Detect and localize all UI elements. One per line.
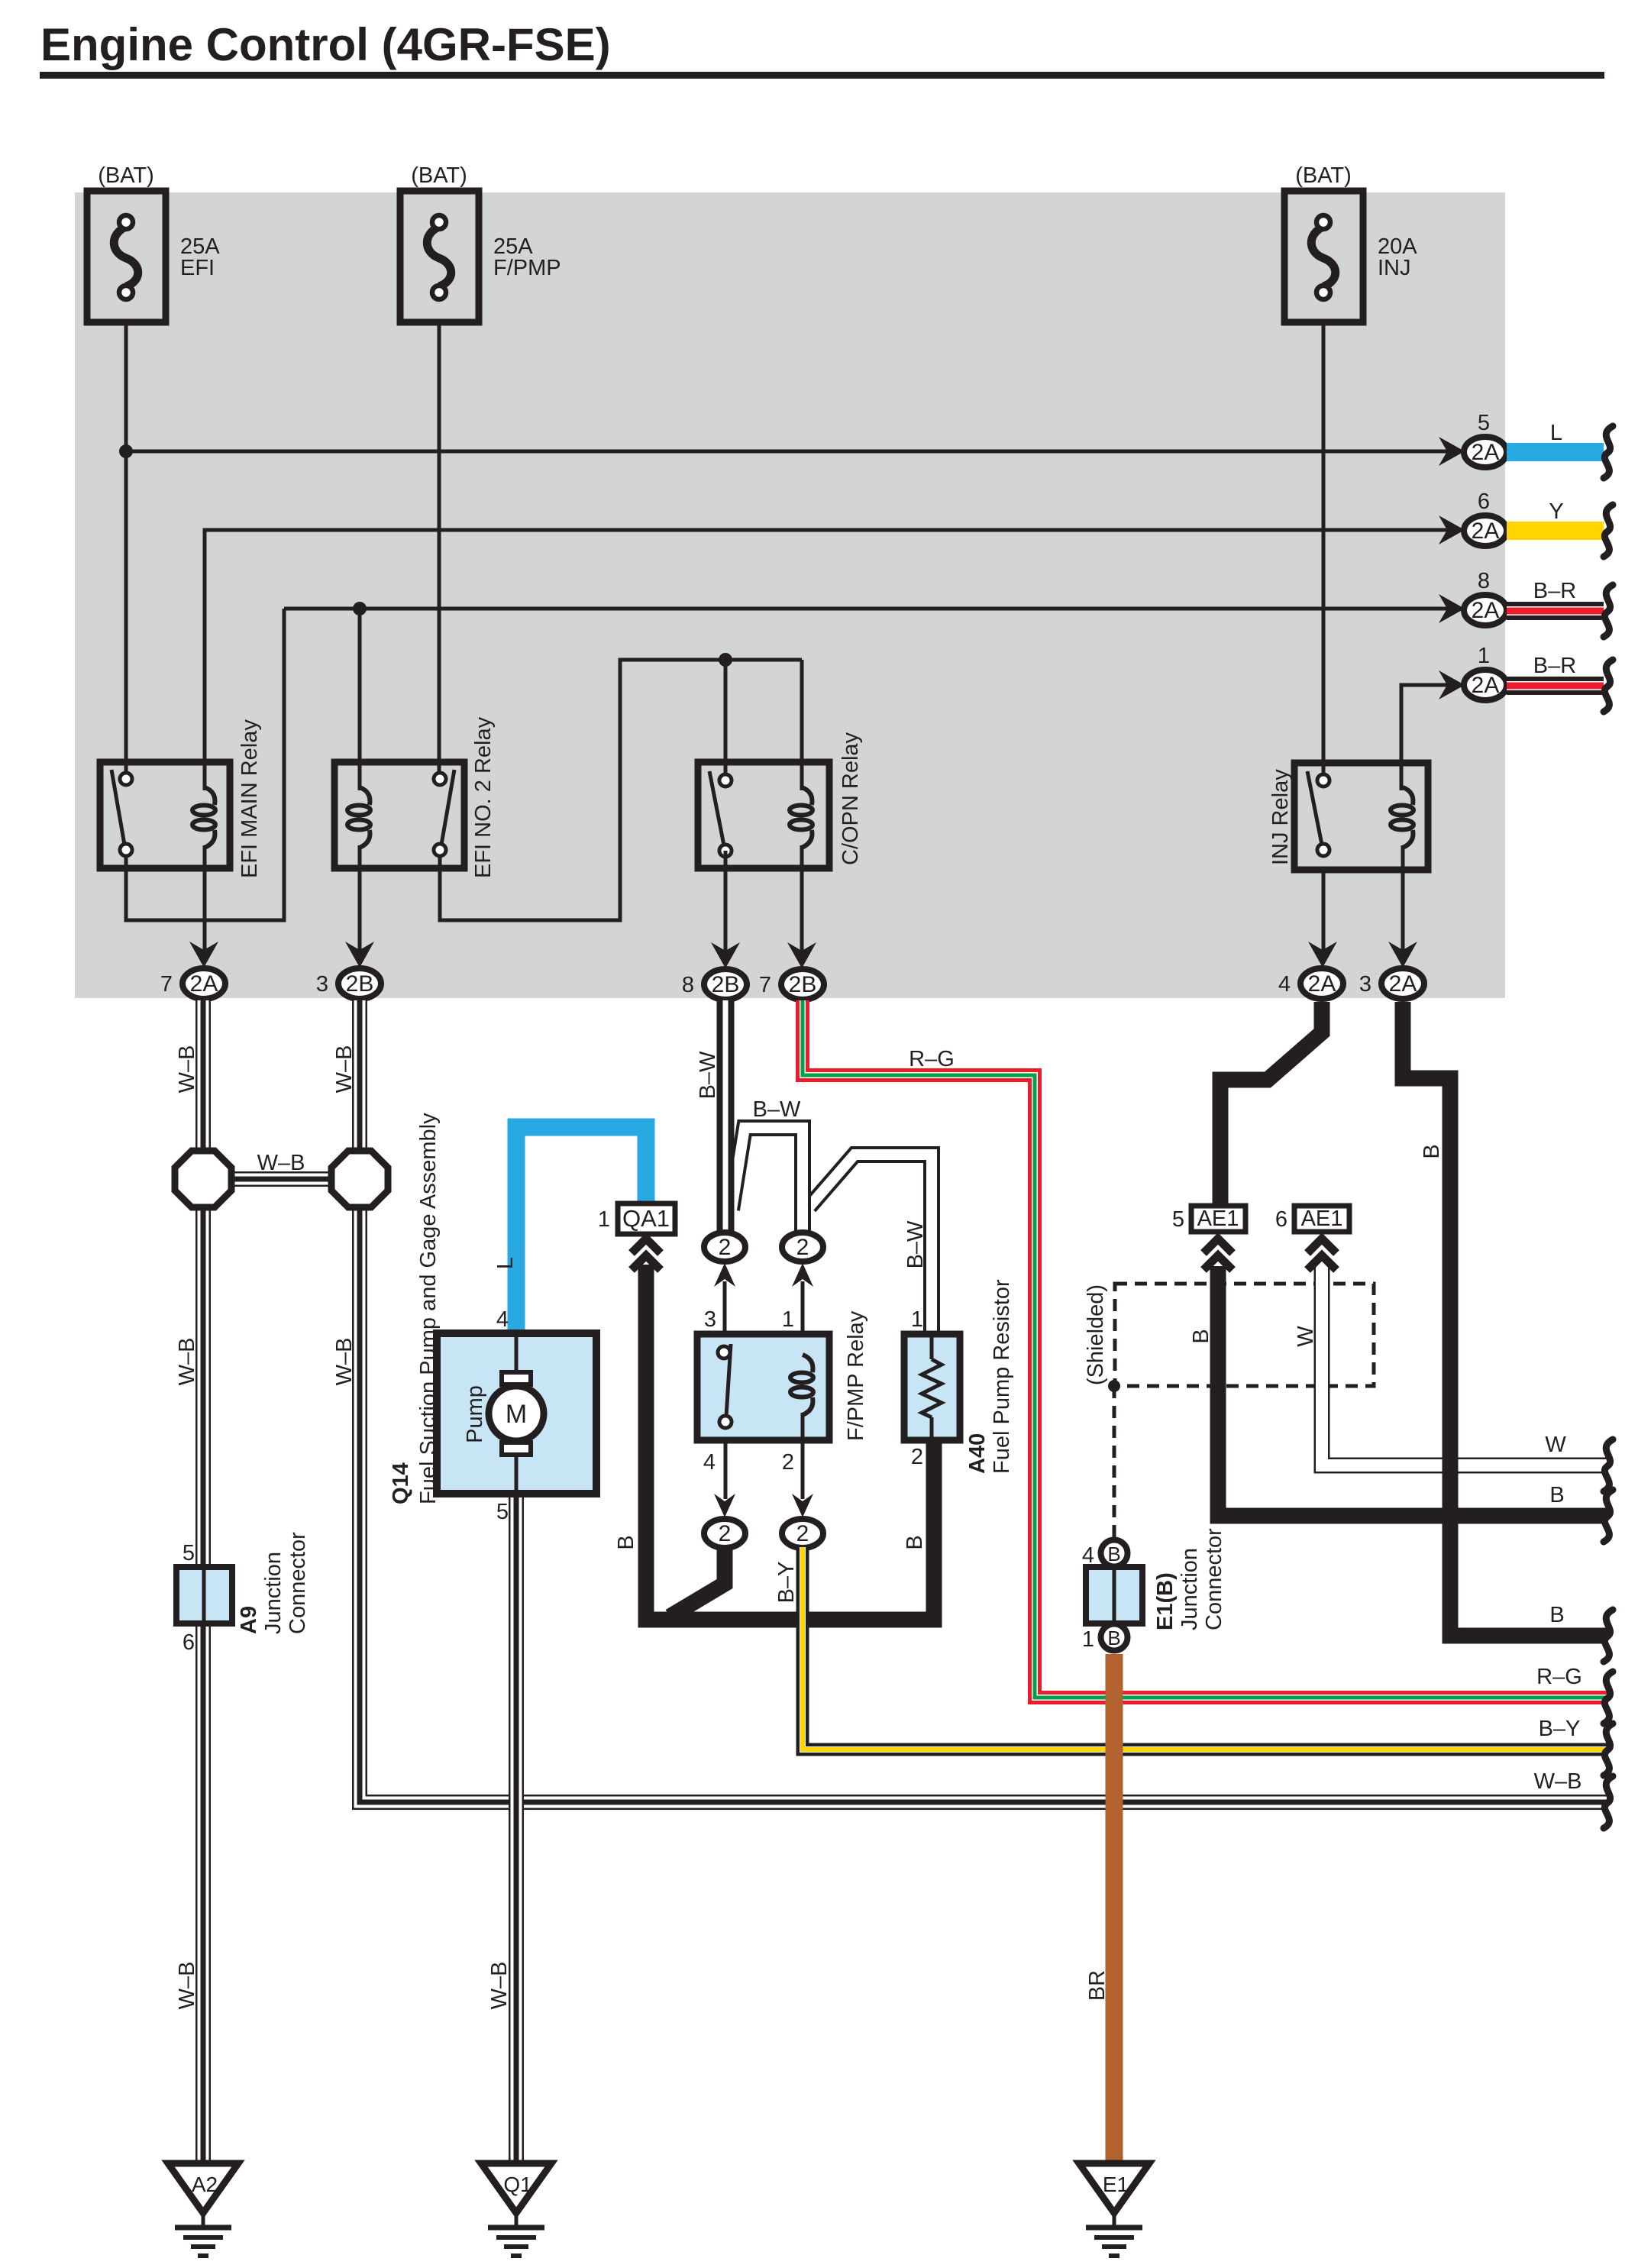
svg-text:2B: 2B: [346, 971, 374, 997]
EFI NO.2 relay switch: [441, 770, 454, 845]
fuse 25A EFI: [87, 191, 166, 322]
relay box: EFI NO. 2 Relay: [334, 762, 464, 868]
relay box: EFI MAIN Relay: [100, 762, 230, 868]
double chevron arrow into AE1 pin5: [1203, 1239, 1233, 1253]
ring terminal B pin 4: [1101, 1540, 1128, 1567]
svg-text:EFI MAIN Relay: EFI MAIN Relay: [237, 719, 262, 878]
svg-text:B–R: B–R: [1533, 579, 1576, 603]
wire: row 8 feed to 2A pin 8: [284, 607, 1460, 611]
svg-text:M: M: [506, 1400, 527, 1429]
wire W-B from pump pin 5 to ground Q1 (x=676): [509, 1497, 524, 2165]
wire: INJ coil drop to connector 3 2A: [1401, 870, 1405, 952]
thin wire to F/PMP relay pin 3: [723, 1281, 727, 1336]
svg-text:W–B: W–B: [487, 1962, 512, 2010]
svg-text:Q14: Q14: [389, 1462, 413, 1504]
relay box: C/OPN Relay: [698, 762, 829, 868]
svg-text:3: 3: [704, 1307, 716, 1332]
INJ relay switch: [1307, 771, 1322, 845]
wire: row 5 feed to connector 2A pin 5: [126, 450, 1460, 454]
svg-text:2A: 2A: [1472, 519, 1500, 544]
svg-text:1: 1: [598, 1207, 610, 1232]
wire: EFI NO.2 relay coil riser x=471: [358, 609, 362, 790]
fuse 25A F/PMP: [400, 191, 479, 322]
junction connector E1(B): [1086, 1567, 1142, 1623]
branch B-W wire to Fuel Pump Resistor pin 1: [809, 1155, 932, 1332]
wire: C/OPN switch drop to connector 8 2B: [724, 851, 728, 952]
component A40 Fuel Pump Resistor: [904, 1334, 960, 1440]
connector oval 2B pin 7: [781, 969, 824, 1000]
harness arrow into 4 2A: [1308, 942, 1337, 968]
svg-text:8: 8: [1478, 569, 1490, 593]
thick B wire from 4 2A to AE1 pin 5: [1220, 1002, 1322, 1207]
blue tail wire L: [1507, 443, 1604, 461]
thick B wire from pin4 oval merging to main B run: [670, 1547, 725, 1617]
wire: C/OPN relay coil riser x=1050: [800, 660, 804, 790]
connector oval 2B pin 3: [338, 968, 381, 999]
connector oval 2A pin 3: [1381, 968, 1424, 999]
octagon junction right: [331, 1151, 388, 1207]
wire from F/PMP pin 2: [801, 1440, 805, 1499]
wire: EFI fuse to EFI MAIN relay switch (x=165): [124, 322, 128, 774]
resistor element: [930, 1334, 934, 1359]
svg-text:L: L: [1550, 421, 1562, 445]
svg-text:2: 2: [719, 1521, 732, 1546]
connector AE1 pin 6: [1294, 1206, 1349, 1232]
connector oval 2A pin 6: [1464, 515, 1507, 546]
EFI MAIN relay coil: [205, 787, 215, 805]
pump motor M: [502, 1372, 531, 1384]
svg-text:4: 4: [496, 1307, 509, 1332]
svg-text:2A: 2A: [1472, 673, 1500, 698]
svg-text:F/PMP: F/PMP: [493, 256, 561, 280]
svg-text:F/PMP Relay: F/PMP Relay: [844, 1310, 868, 1441]
connector oval 2A pin 8: [1464, 595, 1507, 625]
svg-text:Q1: Q1: [503, 2173, 531, 2196]
wire W-B from 7 2A to ground A2 (x=266): [195, 1000, 211, 2165]
svg-text:W–B: W–B: [332, 1338, 357, 1386]
ground A2: [202, 2213, 205, 2226]
svg-text:Fuel Suction Pump and Gage Ass: Fuel Suction Pump and Gage Assembly: [416, 1113, 441, 1504]
svg-text:Y: Y: [1549, 499, 1563, 524]
wire W-B linking the two junction octagons: [231, 1171, 331, 1187]
svg-text:5: 5: [1478, 411, 1490, 435]
connector oval 2 (F/PMP relay pin 1 side): [782, 1233, 823, 1262]
svg-text:6: 6: [183, 1630, 195, 1655]
harness arrow into 8 2B: [711, 942, 740, 968]
svg-text:2: 2: [796, 1235, 809, 1260]
harness arrow into 3 2B: [345, 942, 374, 968]
svg-text:W: W: [1545, 1433, 1566, 1457]
svg-text:6: 6: [1275, 1207, 1287, 1232]
svg-text:2B: 2B: [789, 972, 817, 997]
ground E1: [1113, 2213, 1116, 2226]
svg-text:B: B: [1107, 1543, 1120, 1565]
harness arrow into 2A pin 1: [1439, 670, 1465, 699]
svg-text:B: B: [1549, 1603, 1564, 1627]
svg-text:AE1: AE1: [1301, 1207, 1343, 1231]
svg-text:Fuel Pump Resistor: Fuel Pump Resistor: [990, 1279, 1014, 1474]
svg-text:C/OPN Relay: C/OPN Relay: [838, 732, 863, 865]
engine-room harness shaded background: [75, 192, 1505, 998]
svg-text:B–Y: B–Y: [774, 1562, 799, 1604]
wire: EFI NO.2 coil drop to connector 3 2B: [358, 868, 362, 952]
wire: C/OPN coil drop to connector 7 2B: [800, 868, 804, 952]
wire: EFI MAIN relay coil riser x=268 / row 6 feed to 2A pin 6: [205, 530, 1460, 790]
svg-text:7: 7: [160, 972, 173, 997]
wire W-B from 3 2B down then right to W-B row (x=471): [360, 1000, 1608, 1802]
svg-text:4: 4: [703, 1450, 716, 1475]
B-Y wire from pin2 oval to right edge: [803, 1547, 1608, 1749]
harness arrow into 3 2A: [1388, 942, 1417, 968]
svg-text:W–B: W–B: [1534, 1769, 1582, 1794]
C/OPN relay switch: [709, 771, 724, 845]
squiggle end of L wire: [1604, 426, 1613, 478]
INJ relay coil: [1403, 787, 1413, 805]
svg-text:3: 3: [316, 972, 328, 997]
svg-text:QA1: QA1: [622, 1205, 670, 1232]
svg-text:B–Y: B–Y: [1539, 1717, 1581, 1741]
svg-text:INJ Relay: INJ Relay: [1268, 769, 1293, 865]
blue wire L from QA1 to pump pin 4: [516, 1127, 646, 1333]
svg-text:8: 8: [682, 973, 694, 997]
svg-text:AE1: AE1: [1197, 1207, 1239, 1231]
double chevron arrow into QA1: [632, 1239, 661, 1253]
harness arrow down into oval pin4: [714, 1494, 735, 1517]
svg-text:B–W: B–W: [753, 1097, 801, 1122]
junction connector A9: [176, 1567, 232, 1623]
svg-text:6: 6: [1478, 489, 1490, 514]
wire: INJ fuse to INJ relay switch (x=1733): [1322, 322, 1326, 774]
connector oval 2A pin 7: [183, 968, 225, 999]
wire: F/PMP fuse to EFI NO.2 relay switch (x=575): [438, 322, 441, 774]
wire: EFI NO.2 relay switch out to C/OPN relay: [440, 660, 802, 920]
svg-text:(BAT): (BAT): [98, 163, 154, 188]
thick B wire from AE1 pin5 to right edge B row: [1218, 1266, 1608, 1516]
connector oval 2A pin 4: [1300, 968, 1343, 999]
relay box F/PMP Relay: [697, 1334, 829, 1440]
thick B wire from QA1 down, right, up to A40 pin 2: [646, 1265, 934, 1620]
wire: C/OPN relay switch riser x=950: [724, 660, 728, 774]
junction node at (950,864): [719, 653, 732, 667]
squiggle end of B-R pin1 wire: [1604, 660, 1613, 712]
squiggle end of R-G row: [1604, 1672, 1613, 1724]
svg-text:W: W: [1294, 1326, 1318, 1347]
C/OPN relay coil: [802, 787, 812, 805]
thick B wire from 3 2A down to B row: [1403, 1002, 1608, 1636]
svg-text:Junction: Junction: [1178, 1548, 1202, 1630]
squiggle end of B-Y row: [1604, 1724, 1613, 1775]
squiggle end of lower B row: [1604, 1610, 1613, 1662]
harness arrow into 7 2B: [787, 942, 816, 968]
svg-text:1: 1: [782, 1307, 794, 1332]
squiggle end of upper B row: [1604, 1490, 1613, 1542]
svg-text:(Shielded): (Shielded): [1084, 1284, 1108, 1385]
svg-text:2A: 2A: [1472, 598, 1500, 623]
svg-text:2A: 2A: [1308, 971, 1336, 997]
svg-text:W–B: W–B: [175, 1045, 199, 1094]
svg-text:A2: A2: [192, 2173, 218, 2196]
svg-text:W–B: W–B: [332, 1045, 357, 1094]
svg-text:Junction: Junction: [261, 1552, 286, 1634]
svg-text:Connector: Connector: [1202, 1528, 1226, 1630]
svg-text:W–B: W–B: [175, 1338, 199, 1386]
svg-text:EFI NO. 2 Relay: EFI NO. 2 Relay: [471, 716, 496, 878]
svg-text:Engine Control (4GR-FSE): Engine Control (4GR-FSE): [40, 19, 611, 70]
junction node at (165,591): [119, 444, 133, 458]
svg-text:5: 5: [1172, 1207, 1184, 1232]
harness arrow up into oval pin3: [714, 1263, 735, 1287]
relay box: INJ Relay: [1294, 763, 1428, 870]
svg-text:B: B: [1549, 1483, 1564, 1507]
harness arrow into 2A pin 5: [1439, 437, 1465, 466]
svg-text:Pump: Pump: [463, 1385, 487, 1443]
svg-text:B–R: B–R: [1533, 654, 1576, 678]
ground Q1: [515, 2213, 519, 2226]
svg-text:2: 2: [911, 1445, 923, 1469]
harness arrow up into oval pin1: [792, 1263, 813, 1287]
svg-text:B: B: [1107, 1627, 1120, 1649]
EFI NO.2 relay coil: [360, 787, 370, 805]
connector oval 2A pin 1: [1464, 670, 1507, 700]
B-R tail wire pin1: [1507, 677, 1604, 695]
fuse 20A INJ: [1284, 191, 1363, 322]
svg-text:BR: BR: [1085, 1970, 1110, 2001]
ring terminal B pin 1: [1101, 1624, 1128, 1651]
svg-text:B: B: [1189, 1329, 1213, 1343]
svg-text:4: 4: [1278, 972, 1291, 997]
svg-text:2: 2: [796, 1521, 809, 1546]
svg-text:A9: A9: [237, 1606, 261, 1634]
wire: row 1 feed / INJ relay coil riser: [1401, 685, 1460, 790]
svg-text:B–W: B–W: [696, 1051, 720, 1099]
svg-text:E1(B): E1(B): [1153, 1572, 1178, 1630]
B-R tail wire: [1507, 602, 1604, 620]
svg-text:1: 1: [1082, 1627, 1094, 1652]
svg-text:4: 4: [1082, 1543, 1094, 1568]
squiggle end of Y wire: [1604, 505, 1613, 557]
EFI MAIN relay switch: [111, 770, 124, 845]
yellow tail wire Y: [1507, 522, 1604, 540]
svg-text:B: B: [903, 1535, 927, 1549]
svg-text:INJ: INJ: [1378, 256, 1411, 280]
R-G wire from 7 2B to right edge: [803, 1000, 1608, 1698]
shield dashed box: [1115, 1284, 1374, 1386]
svg-text:EFI: EFI: [180, 256, 215, 280]
wire: EFI MAIN relay switch out, down-right-up to row 8: [126, 609, 284, 920]
dashed shield drain to E1(B): [1113, 1386, 1116, 1538]
connector QA1: [618, 1203, 675, 1234]
svg-text:B: B: [614, 1535, 638, 1549]
harness arrow down into oval pin2: [792, 1494, 813, 1517]
connector oval 2 (F/PMP relay pin 3 side): [704, 1233, 745, 1262]
harness arrow into 7 2A: [189, 942, 218, 968]
svg-text:3: 3: [1359, 972, 1371, 997]
svg-text:R–G: R–G: [1536, 1665, 1582, 1689]
svg-text:W–B: W–B: [175, 1962, 199, 2010]
double chevron arrow into AE1 pin6: [1307, 1239, 1336, 1253]
svg-text:5: 5: [183, 1541, 195, 1565]
F/PMP relay switch: [726, 1344, 731, 1417]
svg-text:(BAT): (BAT): [1295, 163, 1352, 188]
branch B-W wire to F/PMP relay pin 1: [732, 1128, 803, 1231]
svg-text:R–G: R–G: [909, 1047, 955, 1071]
harness arrow into 2A pin 6: [1439, 515, 1465, 544]
junction dot on shield box: [1108, 1380, 1120, 1392]
svg-text:W–B: W–B: [257, 1151, 305, 1175]
wire from F/PMP pin 4: [724, 1440, 728, 1499]
wire: EFI MAIN coil drop to connector 7 2A: [203, 868, 207, 952]
BR wire from E1(B) to ground E1: [1106, 1654, 1123, 2165]
svg-text:A40: A40: [965, 1433, 990, 1474]
harness arrow into 2A pin 8: [1439, 594, 1465, 623]
squiggle end of W-B row: [1604, 1776, 1613, 1828]
svg-text:B–W: B–W: [903, 1220, 928, 1268]
squiggle end of B-R wire: [1604, 585, 1613, 637]
octagon junction left: [175, 1151, 231, 1207]
svg-text:1: 1: [911, 1307, 923, 1332]
svg-text:B: B: [1420, 1144, 1444, 1158]
svg-text:7: 7: [759, 973, 771, 997]
svg-text:2A: 2A: [1472, 440, 1500, 465]
F/PMP relay coil: [803, 1355, 813, 1372]
svg-text:2B: 2B: [712, 972, 740, 997]
svg-text:1: 1: [1478, 644, 1490, 668]
connector oval 2 below pin 2: [782, 1519, 823, 1548]
svg-text:2A: 2A: [1389, 971, 1417, 997]
title underline: [40, 72, 1604, 79]
squiggle end of W row: [1604, 1439, 1613, 1491]
svg-text:L: L: [493, 1257, 518, 1269]
svg-text:E1: E1: [1103, 2173, 1129, 2196]
svg-text:2: 2: [719, 1235, 732, 1260]
connector oval 2A pin 5: [1464, 437, 1507, 467]
wire: INJ switch drop to connector 4 2A: [1322, 870, 1326, 952]
W wire from AE1 pin6 to right edge W row: [1322, 1266, 1608, 1465]
junction node at (471,797): [353, 602, 367, 615]
svg-text:Connector: Connector: [286, 1532, 310, 1634]
component Q14 Fuel Suction Pump and Gage Assembly: [437, 1333, 596, 1494]
svg-text:2A: 2A: [190, 971, 218, 997]
svg-text:2: 2: [782, 1450, 794, 1475]
connector oval 2 below pin 4: [704, 1519, 745, 1548]
pump internal wire: [515, 1333, 519, 1375]
main B-W wire from 8 2B: [717, 1000, 735, 1231]
svg-text:(BAT): (BAT): [411, 163, 467, 188]
connector oval 2B pin 8: [704, 969, 747, 1000]
connector AE1 pin 5: [1191, 1206, 1245, 1232]
svg-text:5: 5: [496, 1500, 509, 1524]
thin wire to F/PMP relay pin 1: [801, 1281, 805, 1336]
